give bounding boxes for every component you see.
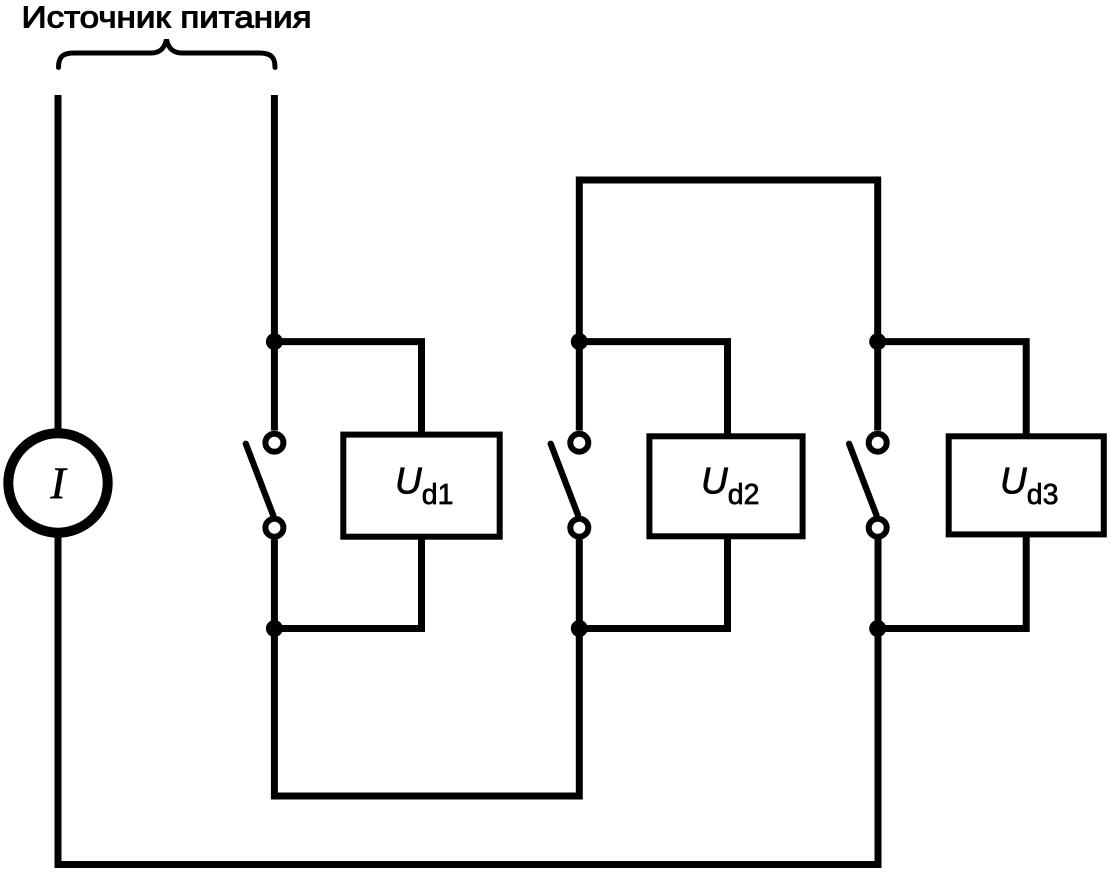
svg-text:Источник питания: Источник питания [22, 0, 312, 35]
svg-text:I: I [50, 459, 68, 509]
